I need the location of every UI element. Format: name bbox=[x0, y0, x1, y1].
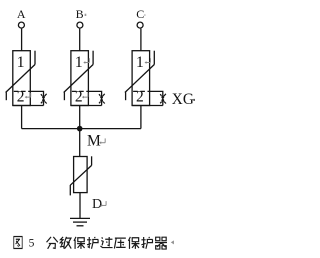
wire D: varistor to ground bbox=[79, 193, 81, 218]
caption char 护 (second) bbox=[141, 237, 152, 249]
SPD F2 dashed separator bbox=[72, 90, 88, 92]
SPD F1 disconnector diagonal bbox=[6, 65, 35, 93]
SPD F1 disconnector tick top bbox=[34, 51, 36, 65]
terminal A circle bbox=[18, 22, 24, 28]
SPD F1 main box bbox=[13, 51, 31, 106]
wire M: bus to varistor bbox=[79, 129, 81, 157]
SPD F2 disconnector diagonal bbox=[64, 65, 93, 93]
SPD F3 main box bbox=[132, 51, 150, 106]
caption char 保 bbox=[74, 237, 85, 249]
SPD F3 disconnector tick bottom bbox=[125, 92, 127, 100]
SPD F2 disconnector tick bottom bbox=[63, 92, 65, 100]
formatting mark after caption bbox=[171, 240, 174, 244]
wire A: circle to SPD F1 bbox=[21, 29, 23, 51]
wire A: SPD F1 to bus bbox=[21, 106, 23, 129]
terminal B circle bbox=[77, 22, 83, 28]
caption char 压 bbox=[114, 238, 125, 248]
SPD F2 extension box (gap section) bbox=[88, 91, 101, 105]
formatting mark after 1 (C) bbox=[145, 58, 151, 64]
varistor RV (coarse SPD) box bbox=[74, 157, 88, 193]
wire C: SPD F3 to bus bbox=[140, 106, 142, 129]
bus wire (A-B-C common) bbox=[22, 128, 141, 130]
SPD F1 disconnector tick bottom bbox=[5, 92, 7, 100]
SPD F3 disconnector tick top bbox=[153, 51, 155, 65]
svg-text:1: 1 bbox=[17, 54, 25, 71]
SPD F1 dashed separator bbox=[14, 90, 30, 92]
SPD F1 spark gap symbol bbox=[41, 94, 47, 104]
SPD F2 bottom edge bbox=[71, 105, 102, 107]
terminal C circle bbox=[137, 22, 143, 28]
svg-text:5: 5 bbox=[29, 237, 35, 249]
SPD F3 bottom edge bbox=[132, 105, 163, 107]
svg-text:C: C bbox=[136, 7, 144, 21]
svg-text:A: A bbox=[17, 7, 26, 21]
varistor RV diagonal bbox=[70, 165, 91, 185]
wire B: SPD F2 to bus bbox=[79, 106, 81, 129]
formatting mark after 2 (A) bbox=[25, 93, 31, 99]
svg-text:D: D bbox=[92, 197, 102, 212]
SPD F2 disconnector tick top bbox=[92, 51, 94, 65]
svg-text:1: 1 bbox=[75, 54, 83, 71]
SPD F3 spark gap symbol bbox=[160, 94, 166, 104]
ground symbol bbox=[70, 218, 90, 225]
svg-text:M: M bbox=[87, 133, 101, 150]
svg-text:2: 2 bbox=[136, 89, 144, 106]
caption char 护 bbox=[87, 237, 98, 249]
svg-text:XG: XG bbox=[172, 91, 194, 108]
formatting mark after M bbox=[99, 138, 105, 144]
svg-text:2: 2 bbox=[17, 89, 25, 106]
SPD F1 extension box (gap section) bbox=[30, 91, 43, 105]
varistor RV tick top bbox=[91, 156, 93, 165]
svg-text:B: B bbox=[76, 7, 84, 21]
formatting mark after 2 (B) bbox=[82, 93, 88, 99]
caption char 图 bbox=[14, 237, 22, 249]
caption char 分 bbox=[47, 237, 58, 249]
formatting mark after 1 (B) bbox=[83, 58, 89, 64]
caption char 级 bbox=[60, 237, 71, 249]
formatting mark after XG (clipped at image edge) bbox=[193, 99, 195, 101]
SPD F3 disconnector diagonal bbox=[125, 65, 154, 93]
SPD F2 spark gap symbol bbox=[99, 94, 105, 104]
formatting mark after D bbox=[100, 201, 106, 207]
SPD F3 extension box (gap section) bbox=[150, 91, 163, 105]
junction node M dot bbox=[77, 126, 83, 132]
svg-text:2: 2 bbox=[75, 89, 83, 106]
varistor RV tick bottom bbox=[69, 185, 71, 195]
wire B: circle to SPD F2 bbox=[79, 29, 81, 51]
svg-text:1: 1 bbox=[136, 54, 144, 71]
wire C: circle to SPD F3 bbox=[140, 29, 142, 51]
SPD F2 main box bbox=[71, 51, 89, 106]
caption char 保 (second) bbox=[128, 237, 139, 249]
formatting mark after C bbox=[144, 14, 145, 15]
formatting mark after B bbox=[85, 14, 87, 16]
caption char 器 bbox=[155, 237, 167, 249]
SPD F1 bottom edge bbox=[13, 105, 44, 107]
SPD F3 dashed separator bbox=[133, 90, 149, 92]
caption char 过 bbox=[100, 237, 112, 248]
